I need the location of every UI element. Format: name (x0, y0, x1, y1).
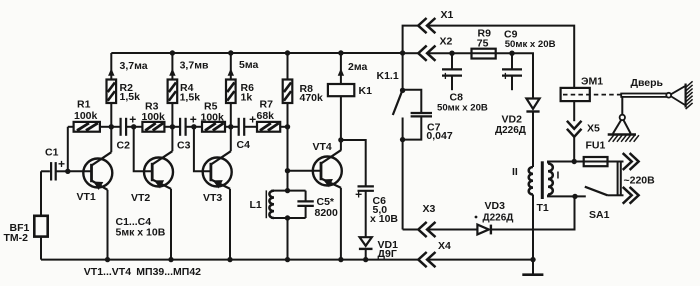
svg-text:X2: X2 (440, 36, 453, 48)
svg-text:VT4: VT4 (313, 141, 332, 153)
svg-text:5мк х 10В: 5мк х 10В (116, 227, 166, 239)
svg-text:X3: X3 (423, 203, 436, 215)
svg-text:VD3: VD3 (485, 200, 506, 212)
svg-text:+: + (502, 69, 509, 83)
svg-text:1k: 1k (241, 92, 253, 104)
svg-text:ЭМ1: ЭМ1 (581, 76, 603, 88)
svg-text:2ма: 2ма (348, 61, 367, 73)
svg-text:X5: X5 (587, 123, 600, 135)
svg-text:X1: X1 (441, 9, 454, 21)
svg-text:K1: K1 (359, 85, 373, 97)
svg-text:II: II (512, 166, 518, 178)
svg-text:8200: 8200 (315, 207, 339, 219)
svg-text:+: + (355, 187, 362, 201)
svg-text:VT2: VT2 (131, 192, 150, 204)
svg-text:FU1: FU1 (586, 140, 606, 152)
svg-text:T1: T1 (537, 202, 549, 214)
svg-text:C1: C1 (45, 147, 59, 159)
svg-text:+: + (249, 112, 256, 126)
svg-text:100k: 100k (74, 110, 98, 122)
svg-text:K1.1: K1.1 (377, 70, 399, 82)
svg-text:C4: C4 (237, 139, 251, 151)
svg-text:+: + (442, 69, 449, 83)
svg-text:0,047: 0,047 (426, 130, 452, 142)
svg-text:VT1: VT1 (77, 191, 96, 203)
svg-text:3,7ма: 3,7ма (120, 60, 148, 72)
svg-text:VT1...VT4: VT1...VT4 (84, 266, 131, 278)
svg-text:+: + (129, 113, 136, 127)
svg-text:75: 75 (477, 37, 489, 49)
svg-text:~220В: ~220В (624, 175, 656, 187)
svg-text:100k: 100k (201, 111, 225, 123)
svg-text:R7: R7 (260, 98, 274, 110)
svg-text:5ма: 5ма (239, 59, 258, 71)
svg-text:Д226Д: Д226Д (483, 213, 514, 224)
svg-text:ТМ-2: ТМ-2 (4, 232, 29, 244)
svg-text:1,5k: 1,5k (120, 91, 141, 103)
svg-text:100k: 100k (142, 111, 166, 123)
svg-text:3,7мв: 3,7мв (180, 60, 209, 72)
svg-text:50мк х 20В: 50мк х 20В (437, 103, 488, 114)
svg-text:L1: L1 (250, 199, 262, 211)
svg-text:МП39...МП42: МП39...МП42 (136, 266, 201, 278)
svg-text:470k: 470k (300, 92, 324, 104)
svg-text:SA1: SA1 (589, 209, 610, 221)
svg-text:х 10В: х 10В (370, 213, 398, 225)
svg-text:R1: R1 (77, 98, 91, 110)
svg-text:68k: 68k (257, 110, 275, 122)
svg-text:X4: X4 (438, 240, 451, 252)
svg-text:VD2: VD2 (502, 114, 523, 126)
svg-text:VT3: VT3 (203, 192, 222, 204)
svg-text:Д226Д: Д226Д (495, 125, 526, 136)
svg-text:C3: C3 (177, 140, 191, 152)
svg-text:Дверь: Дверь (631, 77, 664, 89)
svg-text:I: I (557, 170, 560, 182)
svg-text:50мк х 20В: 50мк х 20В (505, 39, 556, 50)
svg-text:1,5k: 1,5k (180, 92, 201, 104)
svg-text:+: + (190, 113, 197, 127)
svg-text:Д9Г: Д9Г (378, 248, 397, 260)
svg-text:C2: C2 (117, 140, 131, 152)
svg-text:+: + (58, 157, 65, 171)
